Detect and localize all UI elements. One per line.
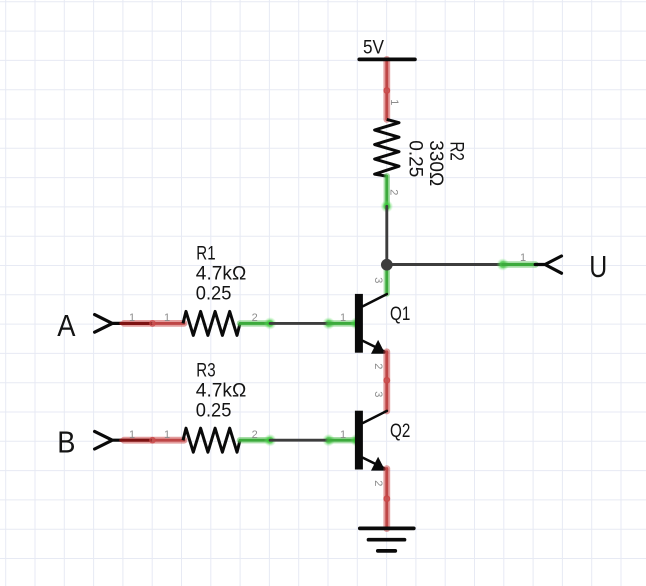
transistor Q1 emitter line	[363, 341, 387, 353]
wire R2 pin2 leg (green)	[384, 176, 390, 206]
wire resistor to transistor base (gray)	[270, 322, 329, 325]
svg-text:2: 2	[372, 363, 384, 369]
wire A to resistor (dark red)	[121, 322, 153, 325]
green connection dot resistor pin2	[264, 317, 277, 330]
transistor Q1 emitter arrow	[371, 340, 385, 354]
svg-text:1: 1	[164, 312, 170, 324]
svg-text:U: U	[589, 249, 607, 284]
green connection dot U pin	[497, 258, 510, 271]
wire B leg halo (red)	[124, 437, 184, 444]
resistor pin1 leg core (red)	[153, 439, 184, 442]
green connection dot at base	[350, 434, 363, 447]
wire Q1 emitter leg (red)	[383, 352, 390, 381]
transistor Q2 emitter arrow	[371, 457, 385, 471]
green connection dot at base	[350, 317, 363, 330]
svg-text:0.25: 0.25	[196, 284, 232, 305]
svg-text:2: 2	[252, 429, 258, 441]
transistor Q1 base bar	[355, 294, 363, 353]
wire U pin1 leg (green)	[503, 261, 536, 267]
green connection dot base wire end	[322, 317, 335, 330]
resistor R2	[375, 119, 399, 176]
svg-text:3: 3	[372, 391, 384, 397]
svg-text:1: 1	[388, 99, 400, 105]
wire Q2 collector leg (red)	[383, 380, 390, 411]
svg-text:B: B	[57, 425, 75, 460]
wire A leg halo (red)	[124, 320, 184, 327]
wire transistor base leg (green)	[329, 437, 357, 443]
svg-text:2: 2	[387, 189, 399, 195]
svg-text:R2: R2	[446, 142, 467, 161]
power symbol 5V bar	[359, 58, 415, 62]
svg-text:2: 2	[372, 480, 384, 486]
svg-text:1: 1	[520, 252, 526, 264]
wire resistor to transistor base (gray)	[270, 439, 329, 442]
resistor R1	[183, 311, 240, 335]
wire B to resistor (dark red)	[121, 439, 153, 442]
wire 5V pin leg (red)	[383, 59, 390, 90]
bendpoint ring	[384, 378, 389, 383]
svg-text:Q2: Q2	[390, 420, 410, 442]
bendpoint ring	[150, 438, 155, 443]
wire R2 pin1 leg (red)	[383, 91, 390, 120]
ground bar 2	[369, 538, 405, 542]
wire R2 to node (gray)	[385, 206, 388, 264]
green connection dot resistor pin2	[264, 434, 277, 447]
svg-text:Q1: Q1	[390, 303, 410, 325]
svg-text:1: 1	[340, 312, 346, 324]
svg-text:1: 1	[164, 429, 170, 441]
svg-text:4.7kΩ: 4.7kΩ	[196, 380, 247, 401]
svg-text:R3: R3	[196, 361, 215, 382]
svg-text:R1: R1	[196, 244, 215, 265]
resistor R3	[183, 428, 240, 452]
transistor Q1 collector line	[363, 294, 387, 306]
svg-text:330Ω: 330Ω	[425, 140, 446, 186]
svg-text:4.7kΩ: 4.7kΩ	[196, 264, 247, 285]
bendpoint ring	[150, 321, 155, 326]
ground bar 1	[360, 527, 414, 531]
connector A chevron	[95, 315, 121, 333]
svg-text:1: 1	[129, 312, 135, 324]
svg-text:5V: 5V	[363, 37, 384, 59]
wire node to output (gray)	[387, 263, 503, 266]
wire Q2 emitter leg (red)	[383, 469, 390, 499]
svg-text:0.25: 0.25	[405, 140, 426, 177]
transistor Q2 emitter line	[363, 458, 387, 470]
transistor Q2 collector line	[363, 411, 387, 423]
svg-text:1: 1	[340, 429, 346, 441]
green connection dot R2 pin2	[381, 200, 394, 213]
node junction dot	[381, 259, 393, 271]
svg-text:2: 2	[252, 312, 258, 324]
svg-text:1: 1	[129, 429, 135, 441]
wire ground pin leg (red)	[383, 499, 390, 529]
connector B chevron	[95, 431, 121, 449]
resistor pin2 leg (green)	[240, 437, 270, 443]
junction bendpoint ring on red wire	[384, 88, 389, 93]
wire Q1 collector leg (green)	[384, 268, 390, 294]
resistor pin1 leg core (red)	[153, 322, 184, 325]
resistor pin2 leg (green)	[240, 320, 270, 326]
green connection dot base wire end	[322, 434, 335, 447]
svg-text:0.25: 0.25	[196, 401, 232, 422]
svg-text:3: 3	[372, 277, 384, 283]
svg-text:A: A	[57, 308, 75, 343]
transistor Q2 base bar	[355, 411, 363, 470]
ground bar 3	[378, 549, 396, 553]
bendpoint ring	[384, 496, 389, 501]
connector U chevron	[535, 256, 561, 273]
wire transistor base leg (green)	[329, 320, 357, 326]
